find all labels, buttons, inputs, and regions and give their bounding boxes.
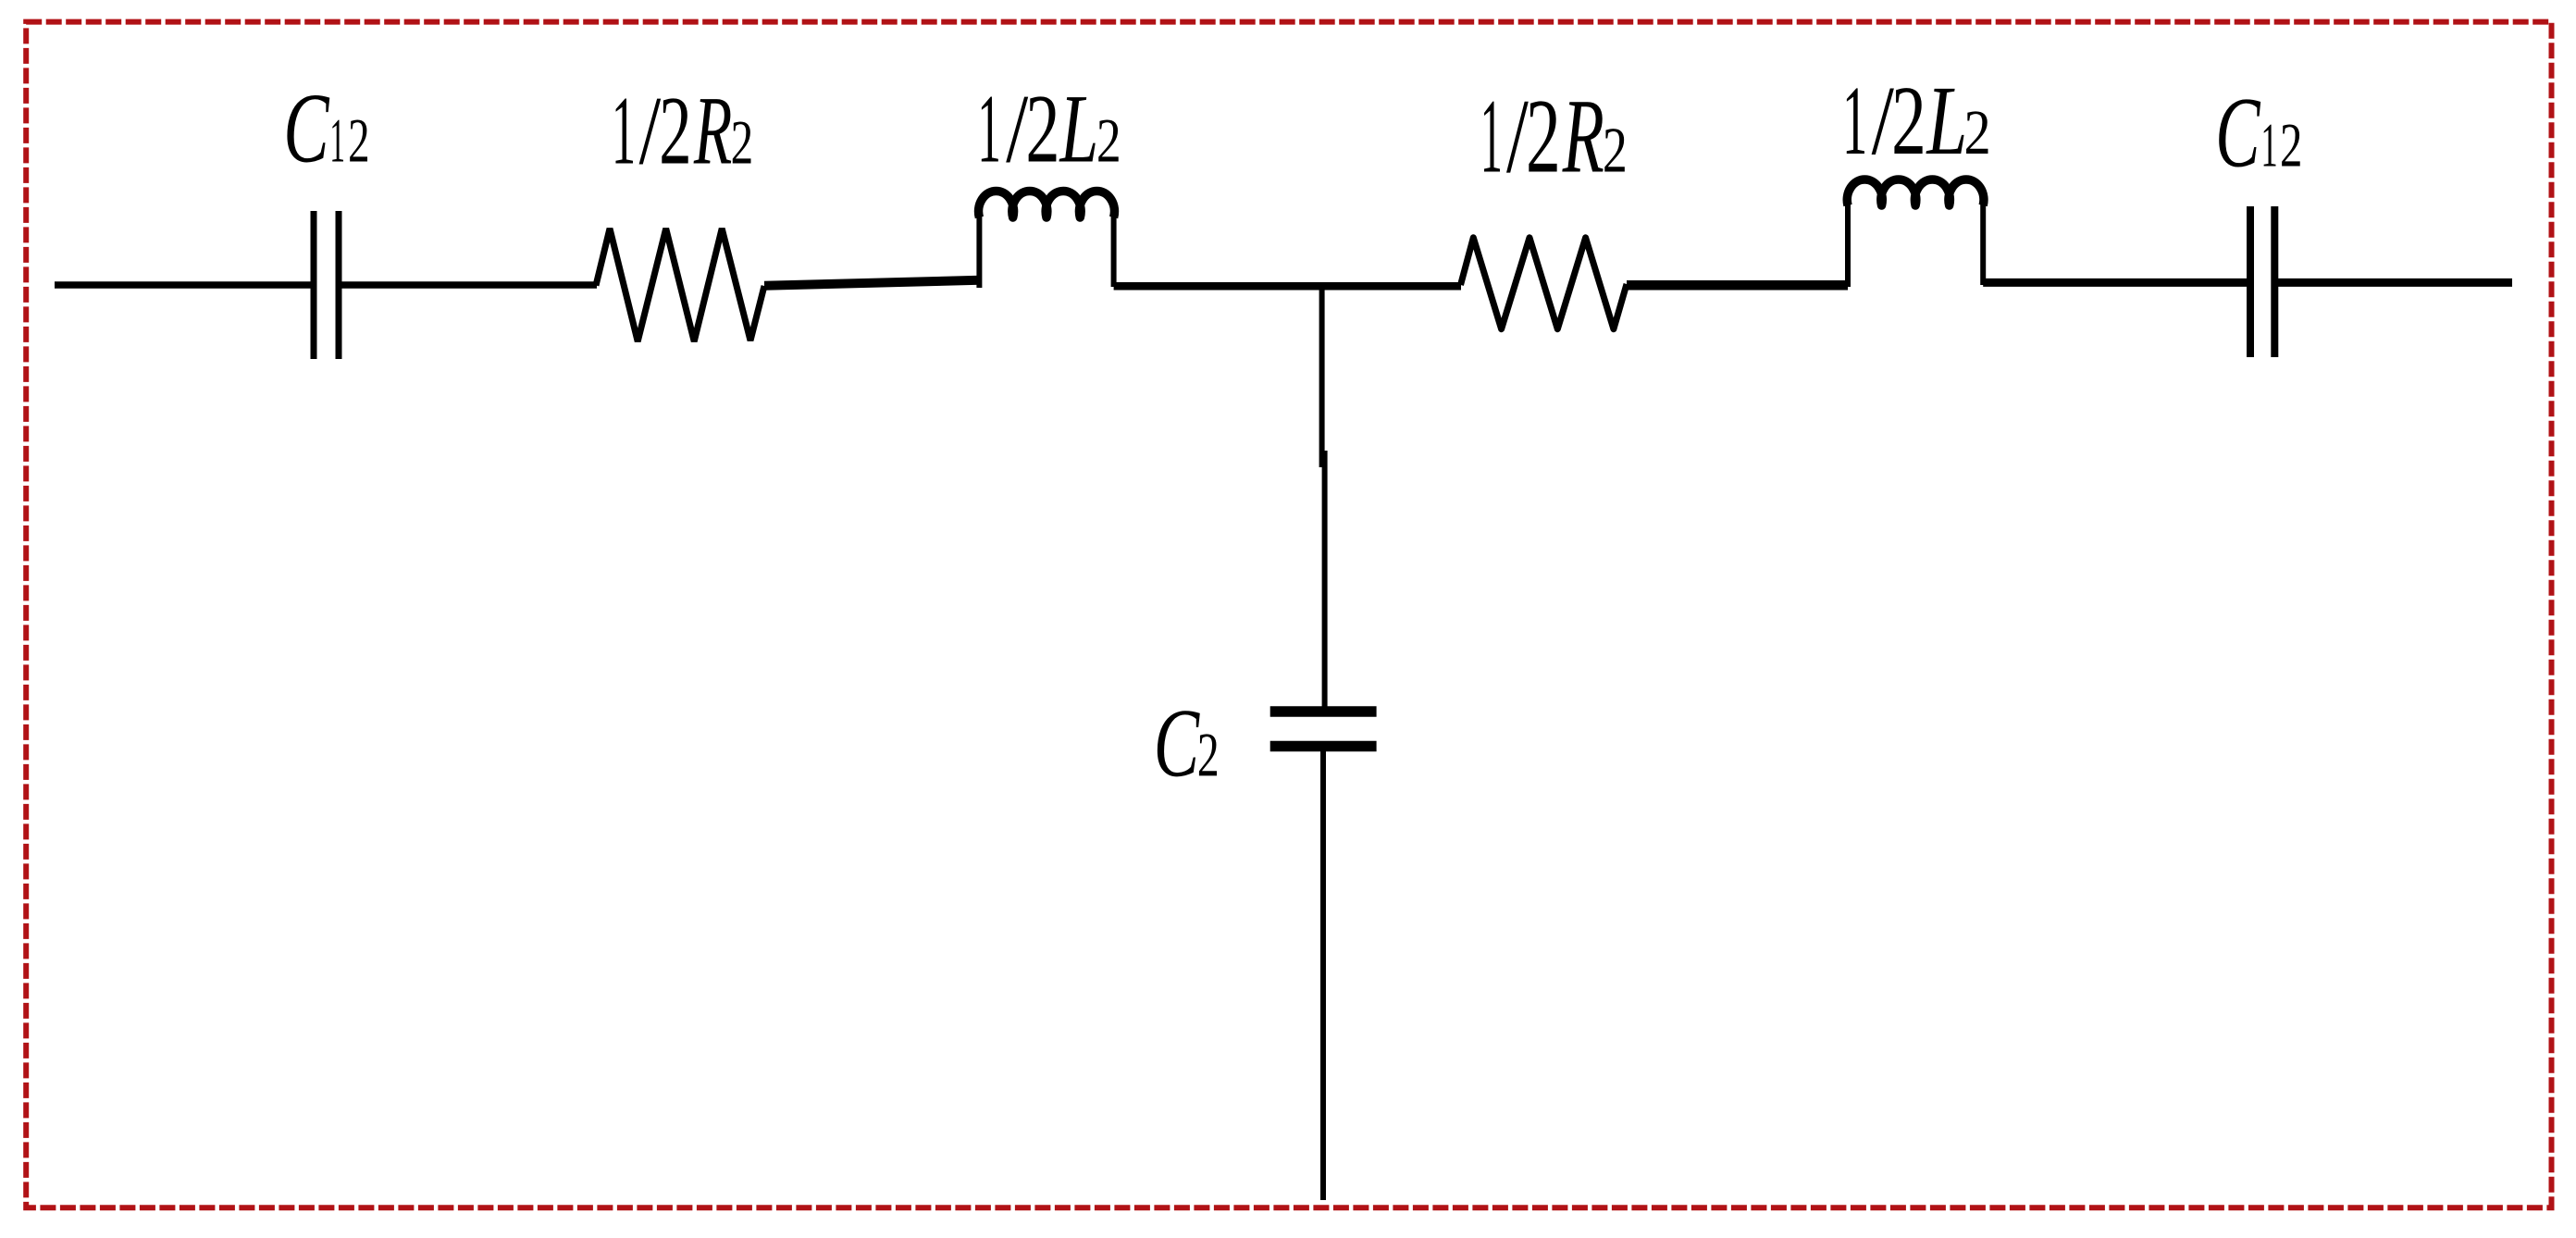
inductor 1/2L2 right [1847,180,1984,287]
capacitor C12 right [2250,206,2274,357]
wire left lead [55,281,311,289]
resistor 1/2R2 right [1461,238,1628,329]
wire L2 to C12-right [1983,279,2249,287]
wire R2 to L2 [1627,280,1848,291]
capacitor C12 left [314,211,339,359]
label 1/2L2 right [1847,88,1988,155]
label 1/2L2 left [982,96,1119,162]
label C12 left [287,95,367,163]
wire R1 to L1 [764,280,980,286]
wire right lead [2276,279,2512,287]
label C2 [1158,711,1217,776]
label 1/2R2 right [1484,101,1625,172]
capacitor C2 [1270,712,1377,747]
resistor 1/2R2 left [596,229,764,341]
wire vertical branch upper [1322,285,1325,708]
inductor 1/2L2 left [979,191,1115,288]
wire C12-left to R1 [341,281,597,289]
label 1/2R2 left [615,98,750,164]
wire vertical branch lower [1320,749,1326,1200]
label C12 right [2219,99,2299,167]
node T junction wire to R2 [1325,282,1461,291]
wire L1 to node T [1114,282,1325,291]
